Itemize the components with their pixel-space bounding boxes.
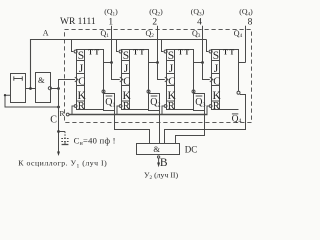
- FF3 Q output wire: [194, 62, 203, 64]
- FF2 R inversion bubble and wire: [117, 105, 122, 115]
- svg-text:4: 4: [197, 18, 202, 28]
- junction feedback node: [57, 106, 60, 109]
- FF2 C dynamic wedge: [120, 77, 123, 82]
- output wire B with arrow: [157, 156, 160, 167]
- JK flip-flop T2: [122, 50, 149, 113]
- svg-text:(Q3): (Q3): [191, 7, 205, 17]
- junction capacitor tap: [57, 130, 60, 133]
- arrowhead clock probe: [57, 152, 60, 157]
- junction Q2 node: [156, 61, 159, 64]
- wire G1 to D1: [26, 88, 36, 90]
- FF1 C dynamic wedge: [75, 77, 78, 82]
- terminal 4 wire: [202, 26, 204, 63]
- FF2 inverse output bubble: [147, 90, 150, 93]
- svg-text:1: 1: [108, 18, 113, 28]
- svg-text:S: S: [168, 50, 174, 62]
- svg-text:K: K: [78, 90, 87, 102]
- FF3 S inversion bubble and stub: [162, 40, 168, 54]
- svg-text:R: R: [78, 101, 85, 112]
- FF3 inverse output bubble: [192, 90, 195, 93]
- wire NAND output to clock node: [52, 88, 59, 90]
- svg-text:У2 (луч II): У2 (луч II): [144, 170, 179, 181]
- wire feedback to G1 input: [5, 95, 59, 107]
- FF1 R inversion bubble and wire: [72, 105, 77, 115]
- FF2 S inversion bubble and stub: [117, 40, 123, 54]
- capacitor Cn wiring: [59, 131, 66, 133]
- svg-text:K: K: [123, 90, 132, 102]
- pulse shaper box G1: [11, 74, 26, 103]
- svg-text:J: J: [214, 63, 219, 75]
- wire Q3bar to decoder: [176, 111, 205, 144]
- svg-text:R: R: [168, 101, 175, 112]
- junction node A tap: [29, 87, 32, 90]
- NAND gate D1: [36, 73, 51, 103]
- FF3 C dynamic wedge: [165, 77, 168, 82]
- svg-text:&: &: [38, 75, 45, 85]
- FF4 inverse output bubble: [237, 91, 240, 94]
- junction clock node: [57, 87, 60, 90]
- svg-text:K: K: [168, 90, 177, 102]
- JK flip-flop T3: [167, 50, 194, 113]
- svg-text:C: C: [213, 76, 220, 87]
- key symbol in G1: [14, 78, 22, 80]
- FF1 S inversion bubble and stub: [72, 40, 78, 54]
- svg-text:T: T: [230, 50, 235, 57]
- junction Q3 node: [201, 61, 204, 64]
- dashed IC boundary box: [65, 30, 252, 123]
- AND decoder gate: [137, 144, 180, 155]
- capacitor Cn plates: [61, 138, 68, 140]
- svg-text:T: T: [223, 50, 228, 57]
- FF1 inverse output bubble: [102, 90, 105, 93]
- svg-text:C: C: [123, 76, 130, 87]
- wire S-bus node A: [31, 40, 207, 89]
- junction Q1 node: [110, 61, 113, 64]
- FF1 inverse output box Q1bar: [104, 94, 116, 111]
- svg-text:A: A: [43, 29, 49, 38]
- wire Q2 to FF3 clock: [158, 63, 165, 80]
- JK flip-flop T4: [212, 50, 239, 113]
- FF4 R inversion bubble and wire: [207, 105, 212, 115]
- svg-text:T: T: [185, 50, 190, 57]
- FF4 Q output wire: [239, 62, 246, 64]
- svg-text:2: 2: [152, 18, 157, 28]
- svg-text:&: &: [153, 144, 160, 154]
- FF2 Q output wire: [149, 62, 158, 64]
- svg-text:K: K: [213, 90, 222, 102]
- FF4 C dynamic wedge: [210, 77, 213, 82]
- FF3 inverse output box Q3bar: [194, 94, 206, 111]
- svg-text:8: 8: [248, 18, 253, 28]
- svg-text:R: R: [60, 109, 65, 118]
- svg-text:В: В: [160, 157, 168, 169]
- svg-text:T: T: [178, 50, 183, 57]
- R bus wire: [69, 114, 207, 116]
- FF4 S inversion bubble and stub: [207, 40, 213, 54]
- ground: [64, 142, 66, 145]
- svg-text:S: S: [78, 50, 84, 62]
- svg-text:T: T: [88, 50, 93, 57]
- FF3 R inversion bubble and wire: [162, 105, 167, 115]
- svg-text:J: J: [124, 63, 129, 75]
- svg-text:J: J: [79, 63, 84, 75]
- wire Q3 to FF4 clock: [203, 63, 210, 80]
- svg-text:(Q4): (Q4): [239, 7, 253, 17]
- svg-text:T: T: [95, 50, 100, 57]
- svg-text:(Q1): (Q1): [104, 7, 118, 17]
- wire clock to FF1 C input: [59, 80, 76, 89]
- svg-text:C: C: [50, 114, 57, 125]
- svg-text:(Q2): (Q2): [149, 7, 163, 17]
- svg-text:R: R: [213, 101, 220, 112]
- JK flip-flop T1: [77, 50, 104, 113]
- wire Q1 to FF2 clock: [112, 63, 120, 80]
- terminal 2 wire: [157, 26, 159, 63]
- FF1 Q output wire: [104, 62, 112, 64]
- svg-text:R: R: [123, 101, 130, 112]
- terminal 8 wire: [245, 26, 247, 63]
- wire Q1bar to decoder: [115, 111, 150, 144]
- terminal 1 wire: [111, 26, 113, 63]
- label Q4bar: [232, 114, 242, 125]
- FF2 inverse output box Q2bar: [149, 94, 161, 111]
- pin R circle: [66, 113, 69, 116]
- svg-text:S: S: [123, 50, 129, 62]
- svg-text:C: C: [168, 76, 175, 87]
- wire Q2bar to decoder: [159, 111, 161, 144]
- svg-text:DC: DC: [185, 145, 198, 155]
- svg-text:S: S: [213, 50, 219, 62]
- svg-text:T: T: [140, 50, 145, 57]
- svg-text:J: J: [169, 63, 174, 75]
- svg-text:C: C: [78, 76, 85, 87]
- svg-text:WR 1111: WR 1111: [60, 17, 96, 27]
- wire clock down to oscilloscope: [58, 89, 60, 153]
- wire Q4bar to decoder: [165, 95, 246, 144]
- svg-text:T: T: [133, 50, 138, 57]
